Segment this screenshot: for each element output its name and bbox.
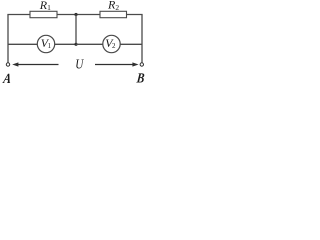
- wire: top-left horizontal to R1: [7, 14, 30, 16]
- resistor R1: [30, 11, 57, 17]
- wire: left rail to V1: [8, 43, 37, 45]
- wire: middle junction to V2: [76, 43, 103, 45]
- svg-text:U: U: [75, 57, 84, 72]
- arrow toward B (voltage U reference, right): [95, 64, 133, 66]
- terminal A (open circle): [6, 63, 9, 66]
- wire: middle vertical from top junction to voltmeter row: [75, 15, 77, 45]
- terminal B (open circle): [140, 63, 143, 66]
- arrow toward A (voltage U reference, left): [17, 64, 59, 66]
- resistor R2: [100, 11, 127, 17]
- wire: R2 to top-right corner: [127, 14, 143, 16]
- voltmeter V2: [103, 35, 120, 52]
- wire: right vertical from top-right corner down to terminal B: [141, 15, 143, 63]
- junction dot (middle, between V1 and V2): [74, 43, 77, 46]
- wire: R1 to R2 through top junction: [57, 14, 100, 16]
- voltmeter V1: [37, 35, 54, 52]
- junction dot (top, between R1 and R2): [74, 13, 77, 16]
- wire: V1 to middle junction: [55, 43, 76, 45]
- wire: V2 to right rail: [120, 43, 142, 45]
- svg-text:B: B: [135, 70, 145, 85]
- wire: left vertical from top-left corner down to terminal A: [7, 15, 9, 63]
